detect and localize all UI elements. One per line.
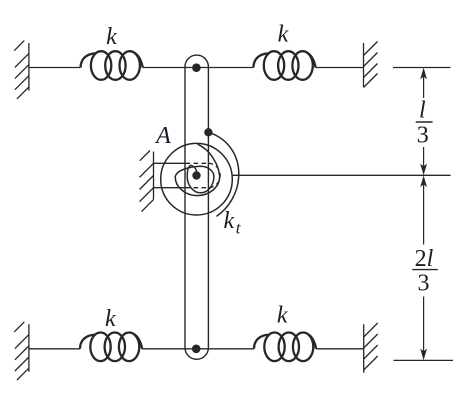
- spring k top-left: [81, 51, 143, 80]
- svg-text:k: k: [224, 208, 235, 234]
- svg-text:2l: 2l: [415, 246, 434, 272]
- wire bottom rail middle (through bar): [142, 348, 254, 350]
- wire top rail right: [316, 67, 364, 69]
- wire top rail left: [29, 67, 81, 69]
- pin top: [192, 63, 201, 72]
- spiral outer end pin: [204, 128, 212, 136]
- pivot pin A: [192, 171, 200, 179]
- svg-text:k: k: [278, 22, 289, 48]
- wall top-left: [14, 41, 29, 99]
- pivot support wall (middle): [140, 151, 154, 212]
- mid reference line to dimension: [232, 174, 451, 176]
- rigid bar (rounded): [185, 55, 208, 359]
- extension line bottom: [394, 359, 454, 361]
- spring k bottom-right: [254, 333, 316, 362]
- wall bottom-right: [364, 323, 378, 373]
- wall top-right: [364, 42, 378, 88]
- svg-text:3: 3: [418, 270, 430, 296]
- wire bottom rail right: [316, 348, 364, 350]
- svg-text:k: k: [106, 24, 117, 50]
- torsional spring spiral k_t: [161, 132, 239, 216]
- pin bottom: [192, 345, 201, 354]
- dimension 2l/3: [423, 178, 425, 358]
- wire bottom rail left: [29, 348, 80, 350]
- extension line top: [393, 67, 451, 69]
- pivot bracket hidden part (dashed): [186, 163, 221, 187]
- svg-text:k: k: [277, 302, 288, 328]
- torsional spring outer circle: [161, 143, 233, 215]
- svg-text:k: k: [105, 306, 116, 332]
- spring k bottom-left: [80, 333, 142, 362]
- dimension l/3: [423, 70, 425, 173]
- wall bottom-left: [14, 322, 29, 380]
- wire top rail middle (through bar): [143, 67, 254, 69]
- spring k top-right: [254, 51, 316, 80]
- svg-text:3: 3: [417, 123, 429, 149]
- pivot bracket solid part: [154, 162, 186, 164]
- svg-text:l: l: [419, 98, 426, 124]
- torsional spring outer arm to bar: [208, 132, 238, 216]
- svg-text:A: A: [154, 123, 171, 149]
